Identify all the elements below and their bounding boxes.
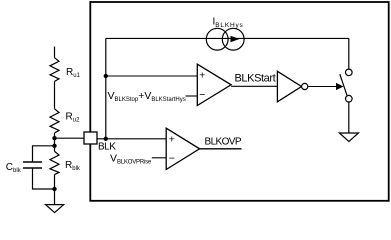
svg-text:BLKOVP: BLKOVP bbox=[205, 136, 242, 147]
svg-text:+: + bbox=[199, 70, 205, 82]
wire: rail to switch top bbox=[348, 38, 350, 69]
resistor Ru2 bbox=[50, 109, 59, 133]
comparator U1 (BLKStart) bbox=[197, 64, 231, 105]
wire: inverter output bbox=[308, 86, 337, 88]
node E: U1 + input tap bbox=[104, 74, 108, 78]
wire: Ru1 to Ru2 bbox=[54, 81, 56, 108]
switch control arrowhead bbox=[336, 83, 344, 90]
wire: U2 - input bbox=[152, 157, 166, 159]
node B: Cblk tap bbox=[52, 144, 56, 148]
svg-text:−: − bbox=[199, 89, 205, 101]
svg-text:BLKStart: BLKStart bbox=[235, 73, 276, 85]
resistor Ru1 bbox=[50, 58, 59, 82]
wire: Cblk bottom to node C bbox=[33, 168, 55, 189]
svg-text:Cblk: Cblk bbox=[6, 162, 22, 174]
node C: ground junction bbox=[52, 187, 56, 191]
wire: Ru1 top stub bbox=[54, 47, 56, 58]
current source IBLKHys bbox=[206, 28, 244, 50]
wire: node A to BLK pin bbox=[55, 137, 85, 139]
wire: Rblk to node C bbox=[54, 175, 56, 205]
wire: BLK rail vertical bbox=[105, 38, 107, 138]
IC boundary box bbox=[90, 2, 388, 201]
wire: U1 - input bbox=[186, 95, 198, 97]
svg-text:−: − bbox=[169, 153, 175, 165]
inverter bbox=[277, 71, 307, 102]
wire: hysteresis current rail bbox=[106, 37, 349, 39]
svg-text:IBLKHys: IBLKHys bbox=[213, 17, 244, 30]
wire: node B to Cblk top bbox=[33, 146, 55, 162]
pin BLK bbox=[84, 132, 97, 144]
wire: U2 output bbox=[200, 148, 242, 150]
wire: U1 + input bbox=[106, 75, 198, 77]
ground (left) bbox=[46, 205, 64, 213]
svg-text:+: + bbox=[169, 133, 175, 145]
wire: Ru2 to Rblk bbox=[54, 133, 56, 151]
resistor Rblk bbox=[50, 151, 59, 174]
node D: BLK rail junction bbox=[104, 137, 108, 141]
svg-text:Ru1: Ru1 bbox=[66, 67, 81, 79]
capacitor Cblk bbox=[23, 162, 42, 168]
svg-text:VBLKStop+VBLKStartHys: VBLKStop+VBLKStartHys bbox=[108, 90, 186, 103]
switch S1 bbox=[340, 69, 352, 102]
svg-text:VBLKOVPRise: VBLKOVPRise bbox=[110, 153, 152, 166]
wire: switch bottom to ground bbox=[348, 102, 350, 133]
wire: BLK pin to comparator + inputs bbox=[97, 138, 166, 140]
wire: U1 output to inverter bbox=[231, 85, 277, 87]
svg-text:Ru2: Ru2 bbox=[66, 111, 81, 123]
svg-text:BLK: BLK bbox=[98, 142, 116, 153]
svg-text:Rblk: Rblk bbox=[65, 160, 81, 172]
ground (right) bbox=[339, 133, 358, 142]
node A: divider tap to BLK pin bbox=[52, 136, 56, 140]
comparator U2 (BLKOVP) bbox=[166, 128, 199, 169]
